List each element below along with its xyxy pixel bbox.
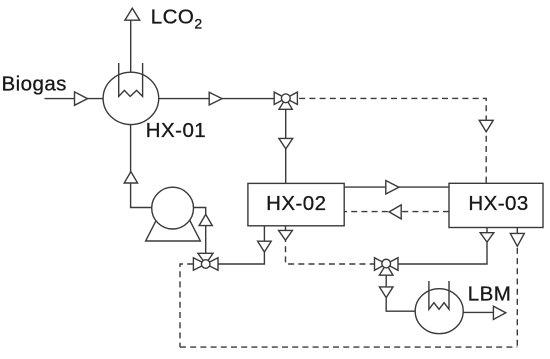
svg-text:Biogas: Biogas [2,73,67,96]
wire pump outlet to valve V2 top [193,208,205,254]
arrow down HX-03 solid outlet [480,233,494,242]
wire HX-03 bottom dashed outlet down right side [516,228,518,348]
svg-text:LBM: LBM [468,283,512,306]
wire valve V3 bottom to LBM exchanger [386,275,415,311]
svg-text:HX-02: HX-02 [266,192,326,215]
arrow LCO2 up [125,8,140,20]
wire bottom dashed rail [180,346,517,348]
arrow down HX-03 dashed outlet [510,233,524,246]
arrow HX-01 outlet right [209,92,222,105]
arrow down HX-02 dashed outlet [279,230,293,240]
wire HX-03 bottom solid outlet to valve V3 right [398,228,487,265]
valve V2 three-way [193,253,218,270]
wire HX-02 to HX-03 top solid [344,186,449,188]
wire HX-01 top riser to LCO2 [130,20,132,73]
wire HX-03 to HX-02 dashed return [344,211,449,213]
wire valve V1 right dashed to HX-03 top [299,98,486,183]
heat exchanger HX-03 box [449,183,543,227]
wire Biogas inlet to HX-01 [45,98,104,100]
arrow down on dashed line to HX-03 top [479,120,493,132]
wire valve V2 left dashed down to bottom rail [180,264,193,347]
arrow up on pump outlet line [199,214,212,225]
wire HX-02 bottom solid outlet to valve V2 right [218,226,264,264]
arrow down HX-02 solid outlet [258,241,272,252]
arrow right HX-02 to HX-03 [386,181,399,195]
wire HX-01 bottom to pump inlet [131,125,152,208]
arrow up on HX-01 bottom line [124,172,137,183]
arrow down below valve V3 [379,287,393,298]
heat exchanger HX-01 [103,63,159,125]
svg-text:HX-01: HX-01 [146,119,206,142]
wire HX-01 right outlet to valve V1 [159,98,275,100]
arrow left HX-03 to HX-02 dashed return [389,205,401,219]
heat exchanger HX-02 box [248,183,344,225]
arrow Biogas inlet [75,92,88,105]
heat exchanger LBM condenser [415,281,463,334]
arrow LBM product out [493,306,505,319]
wire LBM exchanger outlet [463,311,493,313]
valve V1 three-way [274,92,297,109]
valve V3 three-way [375,258,399,276]
pump P1 [146,187,201,241]
svg-text:LCO2: LCO2 [151,5,203,31]
wire valve V1 bottom to HX-02 top [285,109,287,183]
svg-text:HX-03: HX-03 [468,192,528,215]
wire HX-02 bottom dashed outlet to valve V3 left [286,226,375,264]
arrow down valve V1 to HX-02 [279,138,293,149]
